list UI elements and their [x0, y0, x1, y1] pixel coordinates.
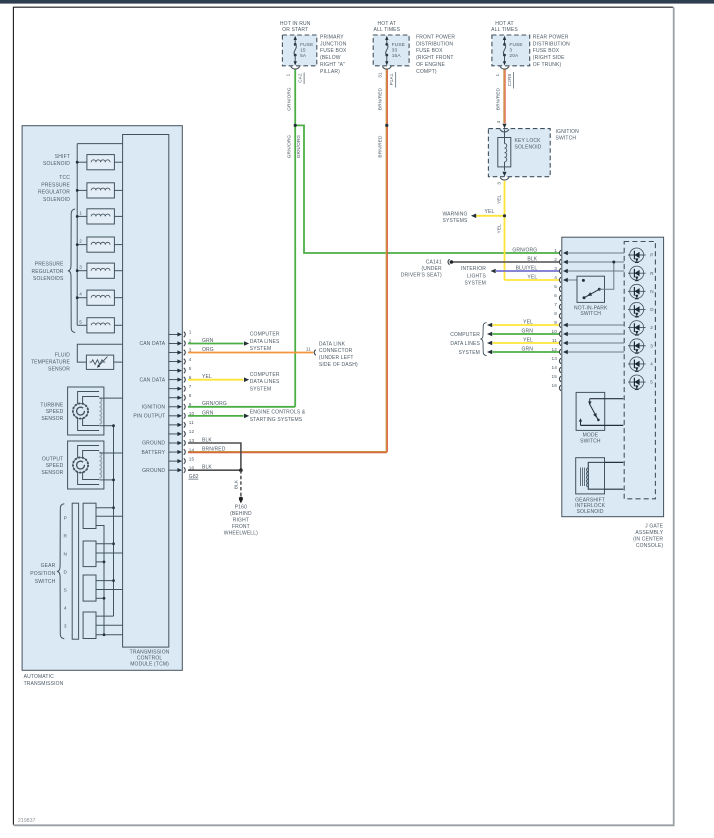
svg-text:15: 15 [551, 374, 557, 379]
svg-text:BRN/RED: BRN/RED [202, 446, 226, 452]
svg-text:BLK: BLK [202, 465, 212, 471]
svg-text:BLU/YEL: BLU/YEL [516, 265, 538, 271]
svg-text:SYSTEM: SYSTEM [459, 350, 480, 356]
svg-text:PILLAR): PILLAR) [320, 69, 340, 75]
svg-text:D: D [63, 570, 67, 576]
svg-text:TURBINE: TURBINE [40, 402, 64, 408]
svg-text:POSITION: POSITION [30, 571, 55, 577]
svg-text:OF TRUNK): OF TRUNK) [533, 62, 562, 68]
svg-text:SOLENOID: SOLENOID [43, 197, 70, 203]
svg-text:SOLENOIDS: SOLENOIDS [33, 276, 64, 282]
svg-text:BRN/RED: BRN/RED [496, 87, 501, 110]
svg-text:SENSOR: SENSOR [41, 416, 63, 422]
svg-text:(RIGHT SIDE: (RIGHT SIDE [533, 55, 565, 61]
svg-text:FUSE: FUSE [509, 42, 522, 48]
svg-text:GRN/ORG: GRN/ORG [512, 247, 537, 253]
svg-text:BATTERY: BATTERY [142, 450, 166, 456]
svg-text:15A: 15A [392, 53, 402, 59]
svg-text:YEL: YEL [527, 274, 537, 280]
svg-text:SPEED: SPEED [46, 463, 64, 469]
svg-text:AUTOMATIC: AUTOMATIC [24, 674, 55, 680]
svg-text:12: 12 [551, 347, 557, 352]
svg-text:SYSTEM: SYSTEM [250, 346, 271, 352]
svg-text:S: S [64, 588, 67, 594]
svg-text:FUSE BOX: FUSE BOX [533, 48, 560, 54]
svg-text:IGNITION: IGNITION [556, 129, 580, 135]
svg-text:13: 13 [551, 356, 557, 361]
svg-text:R: R [63, 534, 67, 540]
svg-text:MODULE (TCM): MODULE (TCM) [130, 661, 169, 667]
svg-text:CAN DATA: CAN DATA [139, 377, 165, 383]
svg-text:3: 3 [554, 266, 557, 271]
svg-text:PRESSURE: PRESSURE [41, 182, 70, 188]
svg-text:CA141: CA141 [426, 259, 442, 265]
svg-text:ORG: ORG [202, 347, 214, 353]
svg-text:DATA LINES: DATA LINES [250, 339, 280, 345]
svg-text:(UNDER: (UNDER [421, 266, 442, 272]
svg-text:GEAR: GEAR [41, 563, 56, 569]
svg-text:GRN: GRN [202, 338, 214, 344]
svg-text:CONSOLE): CONSOLE) [636, 543, 664, 549]
svg-text:CAN DATA: CAN DATA [139, 341, 165, 347]
svg-text:(RIGHT FRONT: (RIGHT FRONT [416, 55, 454, 61]
svg-text:SPEED: SPEED [46, 409, 64, 415]
svg-text:SOLENOID: SOLENOID [515, 145, 542, 151]
svg-text:4: 4 [189, 357, 192, 362]
svg-text:JUNCTION: JUNCTION [320, 41, 347, 47]
svg-text:2: 2 [554, 257, 557, 262]
svg-text:R: R [650, 271, 654, 276]
svg-text:SYSTEM: SYSTEM [465, 281, 486, 287]
svg-text:SOLENOID: SOLENOID [43, 161, 70, 167]
svg-text:REGULATOR: REGULATOR [31, 269, 63, 275]
svg-text:FRONT POWER: FRONT POWER [416, 34, 455, 40]
svg-text:P: P [650, 253, 653, 258]
svg-text:10: 10 [189, 411, 195, 416]
svg-text:PIN OUTPUT: PIN OUTPUT [133, 414, 165, 420]
svg-text:GRN: GRN [521, 328, 533, 334]
svg-text:YEL: YEL [496, 195, 501, 205]
svg-text:SWITCH: SWITCH [580, 311, 601, 317]
svg-text:OR START: OR START [282, 27, 308, 33]
svg-text:20A: 20A [509, 53, 519, 59]
svg-text:GRN/ORG: GRN/ORG [286, 87, 291, 111]
svg-text:3: 3 [650, 343, 653, 348]
svg-text:COMPT): COMPT) [416, 69, 437, 75]
svg-text:COMPUTER: COMPUTER [450, 332, 480, 338]
svg-text:11: 11 [552, 338, 557, 343]
svg-text:FRONT: FRONT [232, 524, 250, 530]
svg-text:WARNING: WARNING [442, 212, 467, 218]
svg-text:ASSEMBLY: ASSEMBLY [635, 530, 663, 536]
svg-text:REAR POWER: REAR POWER [533, 34, 569, 40]
svg-text:C2R8: C2R8 [507, 74, 512, 87]
svg-text:FUSE BOX: FUSE BOX [416, 48, 443, 54]
svg-text:1: 1 [189, 330, 192, 335]
svg-text:SWITCH: SWITCH [35, 579, 56, 585]
svg-text:OF ENGINE: OF ENGINE [416, 62, 445, 68]
svg-text:N: N [650, 289, 653, 294]
svg-text:219837: 219837 [18, 818, 36, 824]
svg-text:ALL TIMES: ALL TIMES [373, 27, 400, 33]
svg-text:GRN: GRN [202, 410, 214, 416]
svg-text:PRIMARY: PRIMARY [320, 34, 344, 40]
svg-text:(IN CENTER: (IN CENTER [633, 537, 663, 543]
svg-text:5: 5 [189, 366, 192, 371]
svg-text:16: 16 [189, 465, 195, 470]
svg-text:GROUND: GROUND [142, 441, 165, 447]
svg-text:SWITCH: SWITCH [580, 439, 601, 445]
svg-text:15: 15 [189, 456, 195, 461]
svg-text:2: 2 [79, 239, 82, 244]
svg-text:(BELOW: (BELOW [320, 55, 341, 61]
svg-text:DISTRIBUTION: DISTRIBUTION [416, 41, 453, 47]
svg-text:1: 1 [286, 73, 291, 76]
svg-text:2: 2 [189, 339, 192, 344]
svg-text:BRN/RED: BRN/RED [378, 87, 383, 110]
svg-text:YEL: YEL [523, 337, 533, 343]
svg-text:DATA LINK: DATA LINK [319, 341, 346, 347]
svg-text:SIDE OF DASH): SIDE OF DASH) [319, 362, 358, 368]
svg-text:11: 11 [189, 420, 194, 425]
svg-text:SWITCH: SWITCH [556, 136, 577, 142]
svg-text:6: 6 [189, 375, 192, 380]
svg-text:P: P [64, 516, 67, 522]
svg-text:BLK: BLK [202, 437, 212, 443]
svg-text:14: 14 [189, 447, 195, 452]
svg-text:5: 5 [554, 284, 557, 289]
svg-text:YEL: YEL [485, 209, 495, 215]
svg-text:5: 5 [650, 380, 653, 385]
svg-text:3: 3 [64, 624, 67, 630]
svg-text:TRANSMISSION: TRANSMISSION [24, 681, 64, 687]
svg-text:DATA LINES: DATA LINES [450, 341, 480, 347]
svg-text:INTERIOR: INTERIOR [461, 266, 486, 272]
svg-text:GRN: GRN [521, 346, 533, 352]
svg-text:4: 4 [79, 292, 82, 297]
svg-text:1: 1 [495, 73, 500, 76]
svg-text:4: 4 [650, 362, 653, 367]
svg-text:YEL: YEL [496, 224, 501, 234]
svg-text:D: D [650, 307, 654, 312]
svg-text:16: 16 [551, 383, 557, 388]
svg-text:2: 2 [650, 325, 653, 330]
svg-text:12: 12 [189, 429, 195, 434]
svg-text:4: 4 [64, 606, 67, 612]
svg-text:15: 15 [300, 48, 306, 54]
svg-text:SENSOR: SENSOR [48, 366, 70, 372]
svg-text:TEMPERATURE: TEMPERATURE [31, 359, 71, 365]
svg-text:ENGINE CONTROLS &: ENGINE CONTROLS & [250, 410, 306, 416]
svg-text:8: 8 [554, 311, 557, 316]
svg-text:CA2: CA2 [298, 73, 303, 83]
svg-text:5: 5 [79, 319, 82, 324]
svg-text:BRN/RED: BRN/RED [378, 135, 383, 158]
svg-text:7: 7 [189, 384, 192, 389]
svg-text:BLK: BLK [527, 256, 537, 262]
svg-text:33: 33 [392, 48, 398, 54]
svg-text:3: 3 [189, 348, 192, 353]
svg-text:COMPUTER: COMPUTER [250, 372, 280, 378]
svg-text:4: 4 [554, 275, 557, 280]
svg-text:(UNDER LEFT: (UNDER LEFT [319, 355, 354, 361]
svg-text:CONNECTOR: CONNECTOR [319, 348, 353, 354]
svg-text:8: 8 [189, 393, 192, 398]
svg-text:31: 31 [377, 72, 382, 78]
svg-text:GRN/ORG: GRN/ORG [296, 135, 301, 159]
svg-text:RIGHT "A": RIGHT "A" [320, 62, 345, 68]
svg-text:1: 1 [79, 210, 82, 215]
svg-text:KEY LOCK: KEY LOCK [515, 138, 542, 144]
svg-text:11: 11 [306, 347, 311, 352]
svg-text:DISTRIBUTION: DISTRIBUTION [533, 41, 570, 47]
svg-text:GROUND: GROUND [142, 468, 165, 474]
svg-text:14: 14 [551, 365, 557, 370]
svg-text:9: 9 [189, 402, 192, 407]
svg-text:9: 9 [554, 320, 557, 325]
svg-text:WHEELWELL): WHEELWELL) [224, 531, 258, 537]
svg-text:3: 3 [79, 265, 82, 270]
svg-text:FUSE BOX: FUSE BOX [320, 48, 347, 54]
svg-text:5A: 5A [300, 53, 307, 59]
svg-text:FUSE: FUSE [300, 42, 313, 48]
svg-text:DRIVER'S SEAT): DRIVER'S SEAT) [401, 273, 442, 279]
svg-text:13: 13 [189, 438, 195, 443]
svg-text:IGNITION: IGNITION [142, 405, 166, 411]
svg-text:4: 4 [496, 120, 501, 123]
svg-text:LIGHTS: LIGHTS [467, 273, 486, 279]
svg-text:SOLENOID: SOLENOID [577, 509, 604, 515]
svg-text:COMPUTER: COMPUTER [250, 332, 280, 338]
svg-text:TCC: TCC [59, 175, 70, 181]
svg-text:YEL: YEL [202, 374, 212, 380]
svg-text:10: 10 [551, 329, 557, 334]
svg-text:7: 7 [554, 302, 557, 307]
svg-text:YEL: YEL [523, 319, 533, 325]
svg-text:P160: P160 [235, 505, 247, 511]
svg-text:REGULATOR: REGULATOR [38, 190, 70, 196]
svg-text:FUSE: FUSE [392, 42, 405, 48]
svg-text:DATA LINES: DATA LINES [250, 379, 280, 385]
svg-text:FLUID: FLUID [55, 352, 70, 358]
svg-text:3: 3 [496, 182, 501, 185]
svg-text:(BEHIND: (BEHIND [230, 511, 252, 517]
svg-text:RIGHT: RIGHT [233, 518, 249, 524]
svg-text:SYSTEMS: SYSTEMS [443, 218, 468, 224]
svg-text:GRN/ORG: GRN/ORG [202, 401, 227, 407]
svg-text:N: N [63, 552, 67, 558]
svg-text:ALL TIMES: ALL TIMES [491, 27, 518, 33]
svg-text:SHIFT: SHIFT [55, 154, 70, 160]
svg-text:6: 6 [554, 293, 557, 298]
svg-text:1: 1 [554, 248, 557, 253]
svg-text:P1A1: P1A1 [389, 73, 394, 85]
svg-text:SYSTEM: SYSTEM [250, 386, 271, 392]
svg-text:STARTING SYSTEMS: STARTING SYSTEMS [250, 417, 303, 423]
svg-text:BLK: BLK [233, 479, 238, 489]
svg-text:J GATE: J GATE [645, 524, 664, 530]
svg-text:SENSOR: SENSOR [41, 470, 63, 476]
svg-text:PRESSURE: PRESSURE [35, 262, 64, 268]
svg-text:GRN/ORG: GRN/ORG [286, 135, 291, 159]
svg-text:OUTPUT: OUTPUT [42, 456, 63, 462]
svg-text:3: 3 [509, 48, 512, 54]
